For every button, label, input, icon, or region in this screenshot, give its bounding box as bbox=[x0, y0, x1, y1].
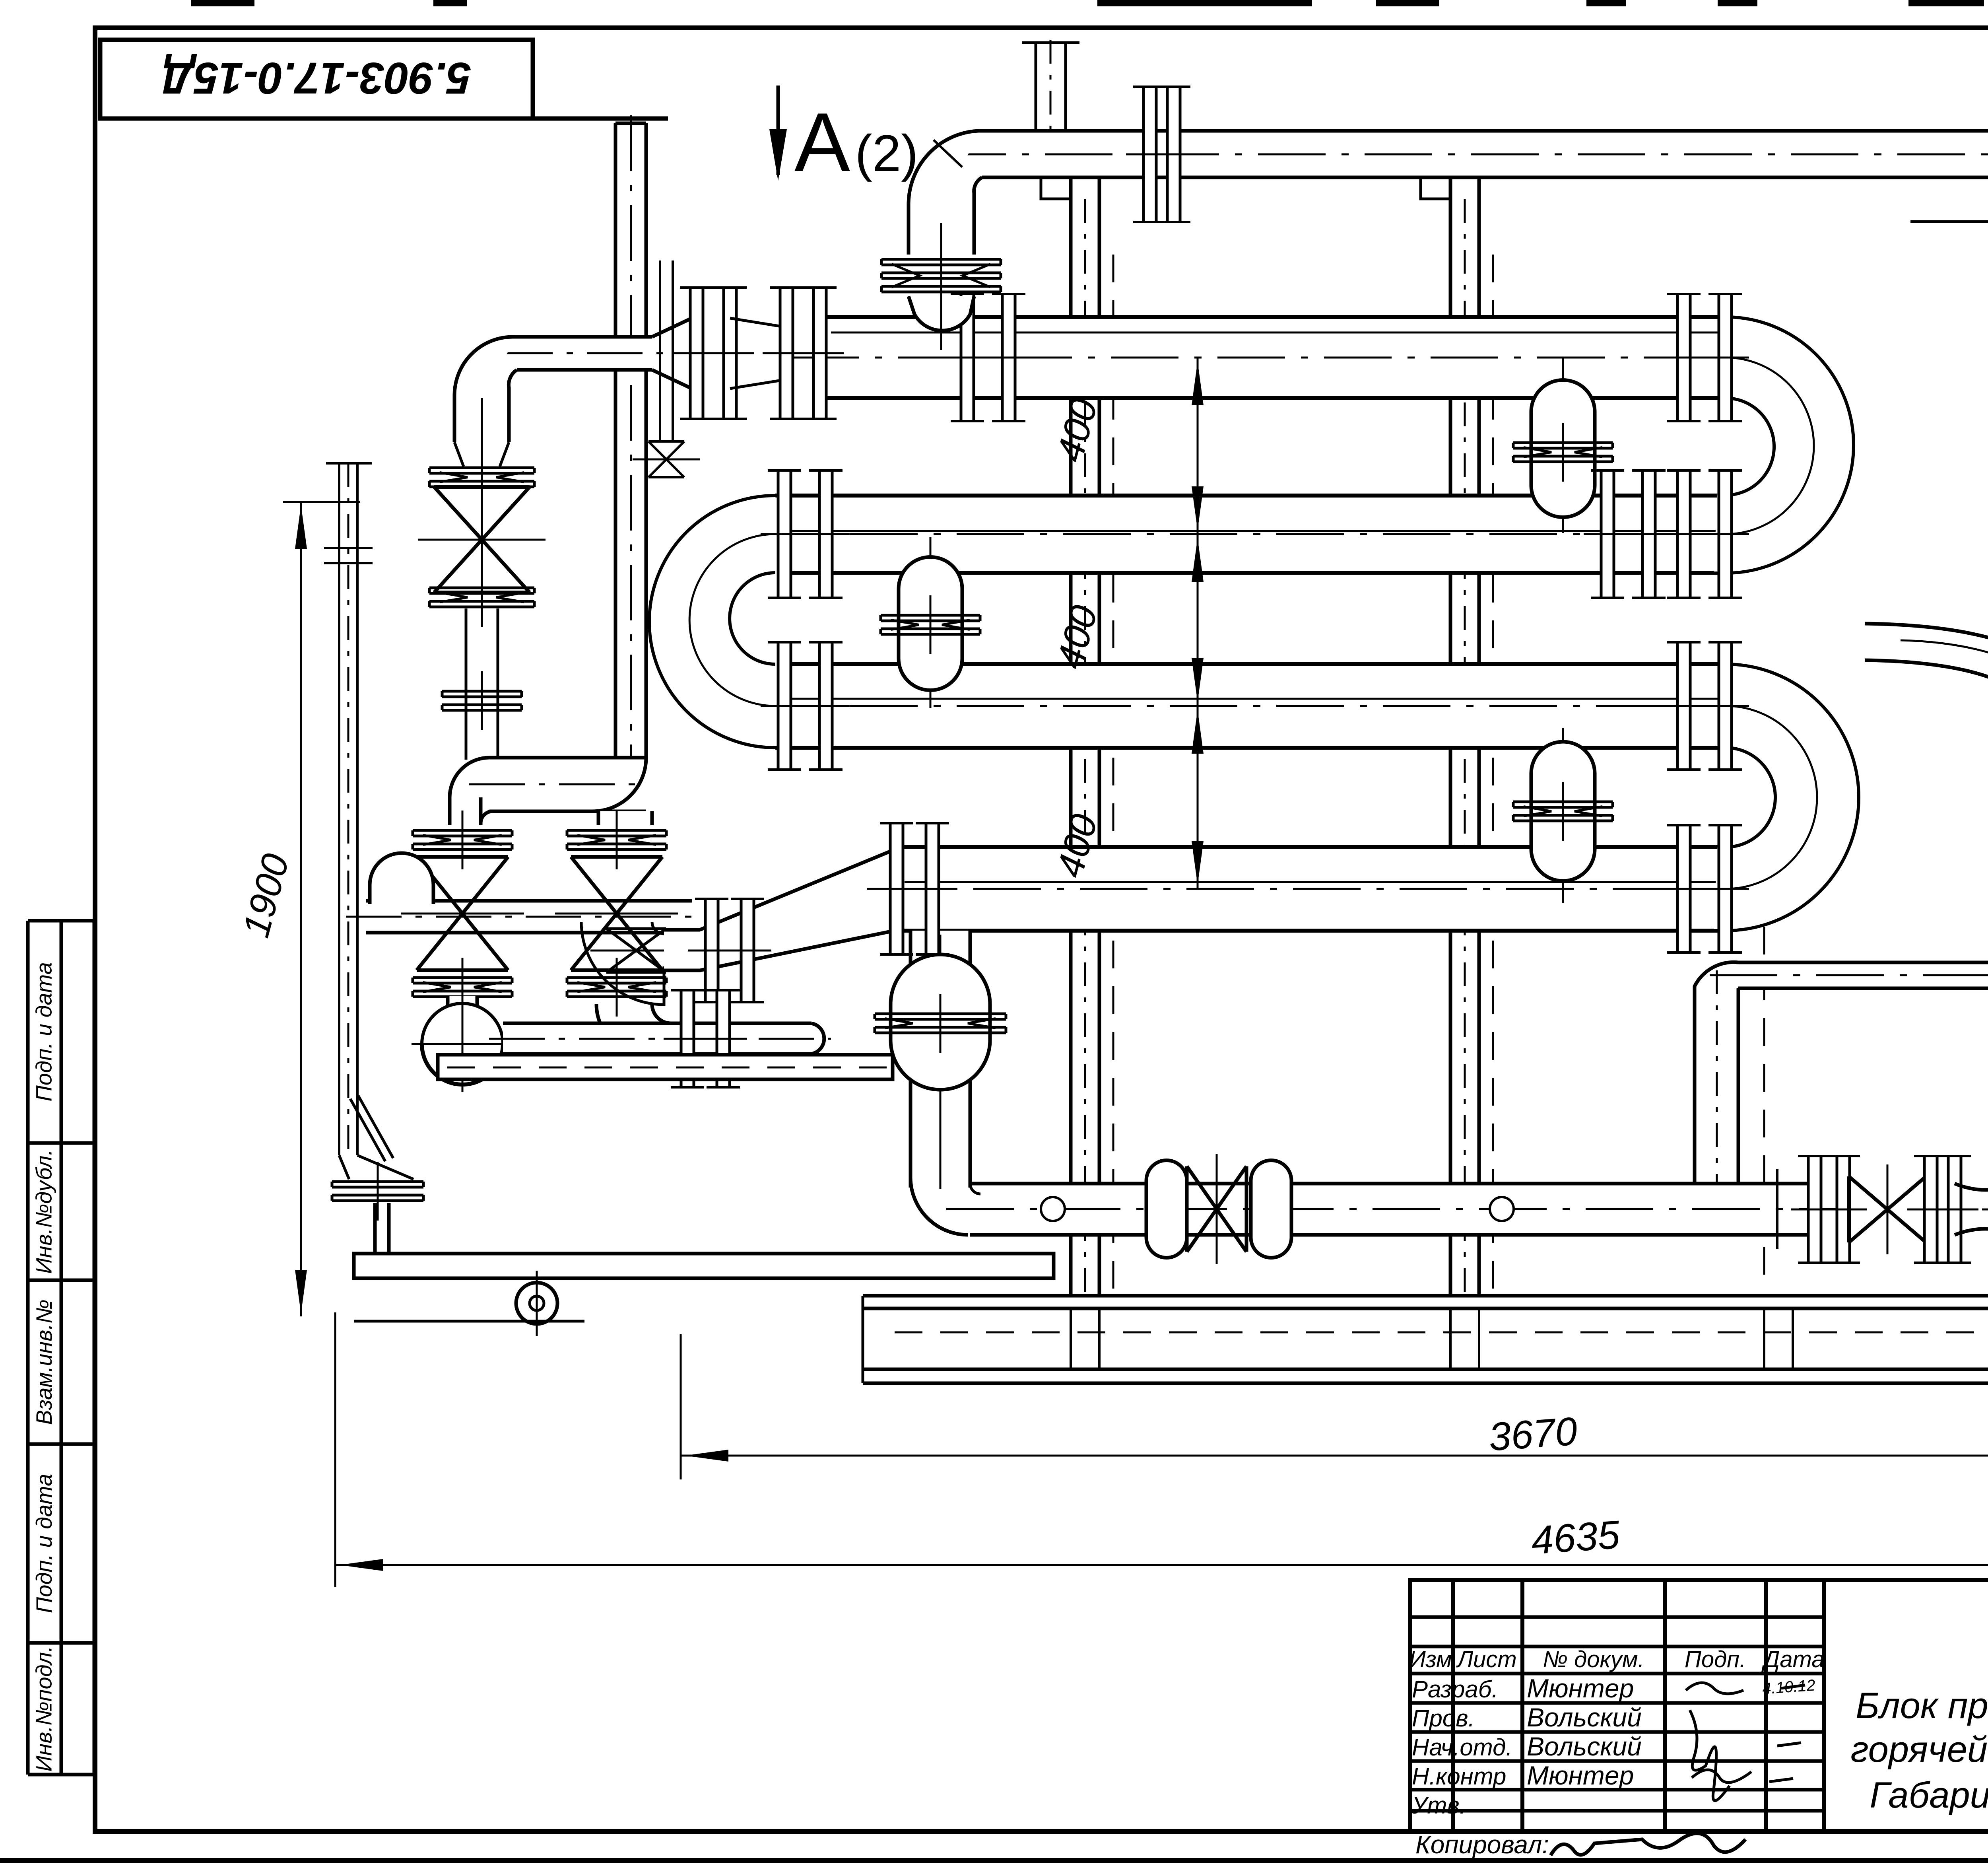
title block revision table grid bbox=[1451, 1580, 1455, 1831]
top-left inverted stamp box bbox=[100, 40, 533, 119]
svg-text:Вольский: Вольский bbox=[1527, 1703, 1642, 1732]
skid hidden dashes bbox=[895, 1332, 1988, 1333]
branch drop pipe to manifold bbox=[465, 608, 468, 760]
small valve at section 4 inlet bbox=[606, 929, 666, 972]
svg-text:4635: 4635 bbox=[1530, 1512, 1621, 1563]
skid posts bbox=[1070, 1308, 1072, 1369]
left margin stamp boxes bbox=[26, 921, 30, 1775]
valve 2 branch elbow to section 4 inlet bbox=[581, 922, 664, 1005]
header left elbow from drain riser bbox=[911, 1178, 968, 1235]
heat exchanger shell section 1 bbox=[825, 317, 1726, 398]
svg-text:Лист: Лист bbox=[1456, 1646, 1516, 1672]
svg-text:№ докум.: № докум. bbox=[1543, 1646, 1644, 1672]
branch valve lower flange bbox=[429, 587, 534, 589]
top pipe inlet dome cap bbox=[909, 296, 974, 330]
discharge pipe end cap bbox=[811, 1023, 824, 1054]
standpipe flange ticks bbox=[324, 547, 373, 549]
flange joint on section 1 left area bbox=[961, 294, 974, 421]
cross pipe right outer elbow arc bbox=[592, 758, 646, 811]
signature squiggles bbox=[1686, 1683, 1743, 1694]
swan neck drop pipe from bend area bbox=[1865, 624, 1988, 733]
heat exchanger shell section 4 bbox=[899, 847, 1726, 931]
right U-bend connecting sections 1-2 bbox=[1714, 317, 1854, 573]
standpipe bottom stub bbox=[373, 1203, 377, 1253]
suction reducer bbox=[1955, 1184, 1988, 1235]
bellows connector between sections 3-4 bbox=[1562, 728, 1564, 903]
top pipe left elbow down bbox=[909, 131, 982, 255]
header lens compensator right bbox=[1251, 1160, 1291, 1258]
heat exchanger shell section 2 bbox=[775, 496, 1726, 573]
left pump inlet drop pipe bbox=[448, 996, 477, 1049]
valve 2 outlet elbow to discharge pipe bbox=[596, 1004, 671, 1054]
svg-text:Разраб.: Разраб. bbox=[1412, 1676, 1498, 1703]
hidden edge dashed line near discharge riser bbox=[1763, 835, 1765, 1293]
discharge riser elbow bbox=[1695, 962, 1738, 1188]
section 4 inlet flange pair a bbox=[705, 899, 718, 1002]
roller support rail bbox=[354, 1254, 1054, 1278]
cross pipe left elbow down to valve 1 bbox=[450, 758, 493, 825]
support column 1 bbox=[1069, 175, 1073, 1296]
thin riser above top pipe bbox=[1035, 43, 1037, 131]
section 1 inlet cone between flanges bbox=[730, 318, 779, 389]
discharge pipe from riser to pump volute bbox=[1738, 962, 1988, 988]
svg-text:5.903-17.0-15Д: 5.903-17.0-15Д bbox=[162, 53, 471, 103]
svg-text:горячей воды БПГВ-1: горячей воды БПГВ-1 bbox=[1850, 1729, 1988, 1770]
sheet bottom rule bbox=[0, 1858, 1988, 1863]
header drain port 1 bbox=[1041, 1197, 1065, 1221]
left pump inlet flange bbox=[413, 976, 512, 979]
left pump volute bbox=[422, 1003, 503, 1085]
svg-text:Подп. и дата: Подп. и дата bbox=[31, 1474, 56, 1613]
svg-text:Нач.отд.: Нач.отд. bbox=[1412, 1734, 1512, 1761]
svg-text:Инв.№подл.: Инв.№подл. bbox=[31, 1646, 56, 1771]
tall riser pipe bbox=[615, 123, 646, 758]
section 1 inlet flange pair b bbox=[780, 288, 793, 419]
pump suction valve bbox=[1849, 1176, 1926, 1242]
svg-text:Взам.инв.№: Взам.инв.№ bbox=[31, 1299, 56, 1425]
header left end elbow cap bbox=[370, 853, 433, 904]
svg-text:Инв.№дубл.: Инв.№дубл. bbox=[31, 1149, 56, 1274]
flange tick on header bbox=[1776, 1169, 1778, 1249]
heat exchanger shell section 3 bbox=[775, 664, 1726, 748]
thin drain small valve bbox=[648, 441, 684, 477]
sheet edge torn marks top bbox=[191, 0, 254, 6]
diagonal brace bbox=[350, 1099, 385, 1161]
bottom suction header pipe bbox=[970, 1184, 1812, 1235]
flange pair on top pipe bbox=[1143, 87, 1156, 222]
flange joint on section 2 right area bbox=[1601, 470, 1614, 598]
thin drain pipe near riser bbox=[659, 260, 661, 441]
svg-text:Мюнтер: Мюнтер bbox=[1527, 1674, 1634, 1703]
skid lower rail bbox=[863, 1368, 1988, 1371]
svg-text:4.10.12: 4.10.12 bbox=[1762, 1676, 1816, 1697]
section 1 inlet flange pair a bbox=[690, 288, 703, 419]
section 4 inlet flange pair b bbox=[890, 823, 903, 954]
svg-text:Н.контр: Н.контр bbox=[1412, 1763, 1506, 1790]
svg-text:Мюнтер: Мюнтер bbox=[1527, 1761, 1634, 1790]
hidden edge dashed line near column 1 bbox=[1112, 255, 1114, 1289]
bellows connector between sections 1-2 bbox=[1562, 358, 1564, 533]
left valve 1 bbox=[417, 857, 508, 970]
top supply pipe horizontal run bbox=[982, 131, 1988, 177]
top pipe inlet flange stack bbox=[881, 258, 1001, 261]
branch drop pipe joint bbox=[442, 690, 522, 693]
branch valve upper flange bbox=[429, 467, 534, 469]
dimension 3670 line bbox=[681, 1455, 1988, 1457]
small inlet pipe left elbow down bbox=[454, 337, 517, 442]
svg-text:Дата: Дата bbox=[1761, 1646, 1824, 1672]
section 4 inlet reducer cone bbox=[700, 848, 899, 970]
svg-text:А: А bbox=[794, 95, 850, 189]
header lens compensator left bbox=[1146, 1160, 1187, 1258]
left U-bend connecting sections 2-3 bbox=[649, 496, 791, 748]
inlet reducer after small pipe to section 1 bbox=[652, 318, 692, 389]
left manifold header pipe bbox=[366, 899, 692, 903]
svg-text:3670: 3670 bbox=[1487, 1409, 1579, 1459]
small inlet pipe to section 1 bbox=[517, 337, 652, 370]
svg-text:Утв.: Утв. bbox=[1411, 1792, 1466, 1819]
dimension 1900 vertical line bbox=[300, 502, 302, 1316]
short parallel line right of columns bbox=[1910, 220, 1988, 223]
svg-text:Изм: Изм bbox=[1409, 1646, 1452, 1672]
pump suction flange 2 bbox=[1924, 1156, 1937, 1263]
top-left stamp box bottom extension bbox=[100, 117, 668, 121]
section 4 inlet pipe bbox=[664, 930, 700, 970]
pump suction flange 1 bbox=[1808, 1156, 1821, 1263]
svg-text:Копировал:: Копировал: bbox=[1415, 1830, 1549, 1859]
left pump discharge pipe bbox=[503, 1023, 811, 1054]
branch taper below elbow bbox=[454, 442, 509, 467]
roller wheel bbox=[516, 1283, 557, 1324]
flange joints right ends of shells bbox=[1677, 294, 1690, 421]
left valve 1 bottom flange bbox=[413, 976, 512, 979]
support column 2 bbox=[1449, 175, 1452, 1296]
right U-bend connecting sections 3-4 bbox=[1714, 664, 1859, 931]
drain riser from section 4 to bottom header bbox=[911, 931, 970, 1188]
svg-text:Подп.: Подп. bbox=[1685, 1646, 1746, 1672]
section arrow A bbox=[777, 86, 780, 175]
left base rail bbox=[438, 1055, 893, 1079]
svg-text:Вольский: Вольский bbox=[1527, 1732, 1642, 1761]
svg-text:Подп. и дата: Подп. и дата bbox=[31, 962, 56, 1102]
title block outer box bbox=[1410, 1580, 1988, 1831]
hidden edge dashed line near column 2 bbox=[1492, 255, 1494, 1289]
dimension 4635 line bbox=[335, 1564, 1988, 1566]
standpipe bottom cone bbox=[339, 1155, 414, 1179]
svg-text:Габаритный чертеж: Габаритный чертеж bbox=[1870, 1775, 1988, 1816]
svg-text:(2): (2) bbox=[855, 124, 918, 182]
discharge pipe flange pair bbox=[681, 990, 694, 1088]
svg-text:Пров.: Пров. bbox=[1412, 1705, 1475, 1732]
standpipe bottom flange bbox=[332, 1180, 423, 1183]
left valve 1 riser top flange bbox=[413, 829, 512, 832]
flange joints left ends of sections 2-3 bbox=[778, 470, 791, 598]
left valve 2 bbox=[571, 857, 662, 970]
ground line under roller bbox=[354, 1320, 584, 1323]
left valve 2 riser pipe bbox=[598, 811, 652, 825]
header drain port 2 bbox=[1490, 1197, 1514, 1221]
left valve 2 top flange bbox=[567, 829, 666, 832]
svg-text:Блок приготовления: Блок приготовления bbox=[1856, 1685, 1988, 1726]
skid upper rail bbox=[863, 1294, 1988, 1298]
thin standpipe far left bbox=[338, 463, 340, 1155]
left valve 2 bottom flange bbox=[567, 976, 666, 979]
bellows on drain riser bbox=[891, 954, 990, 1090]
header valve bbox=[1187, 1166, 1246, 1252]
manifold cross pipe upper bbox=[489, 758, 646, 811]
bellows connector between sections 2-3 bbox=[930, 537, 932, 708]
dimension 400 vertical line bbox=[1197, 358, 1199, 889]
branch valve bbox=[434, 487, 530, 593]
